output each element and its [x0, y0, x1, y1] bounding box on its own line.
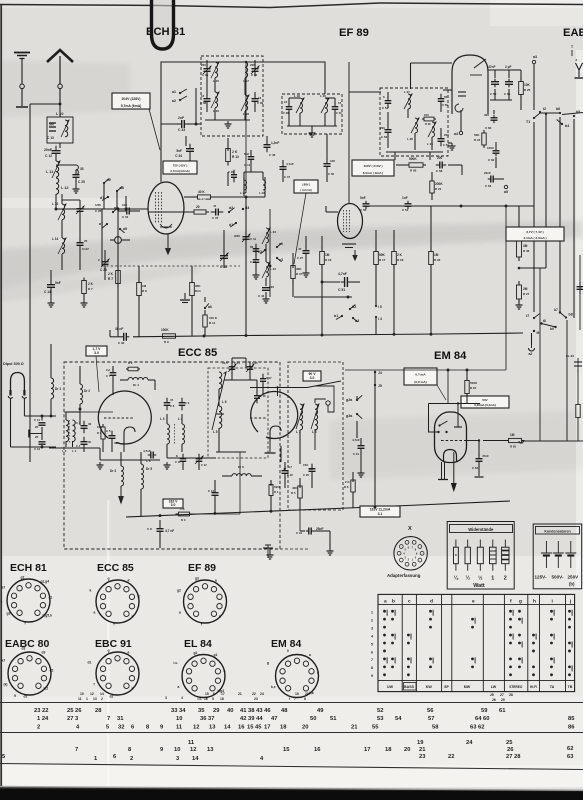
svg-text:R 25: R 25 [524, 88, 531, 92]
coil L19 [300, 98, 303, 113]
svg-text:C 43: C 43 [250, 260, 256, 264]
svg-text:i 4: i 4 [378, 317, 382, 321]
svg-text:7: 7 [294, 697, 296, 701]
svg-text:C 21: C 21 [353, 452, 359, 456]
svg-text:STEREO: STEREO [509, 685, 523, 689]
svg-text:C 12: C 12 [201, 463, 207, 467]
long bus 181V [126, 501, 510, 517]
svg-text:k,g5,h: k,g5,h [43, 614, 53, 618]
svg-text:4,7nF: 4,7nF [286, 162, 294, 166]
connection list rule 1 [0, 702, 583, 704]
V1b grid dashes [250, 417, 266, 419]
capacitor C54 1nF [407, 201, 409, 204]
svg-text:½: ½ [478, 575, 483, 582]
tube socket EF 89 [184, 580, 227, 623]
capacitors C8 C9 47 [166, 398, 168, 403]
V1a grid dashes [104, 417, 134, 419]
wire x375 drop [374, 398, 376, 507]
svg-text:C 52: C 52 [382, 106, 388, 110]
AGC dashed wire [102, 265, 240, 267]
svg-text:7: 7 [371, 658, 373, 662]
svg-text:50: 50 [310, 716, 316, 722]
svg-text:g2: g2 [21, 576, 25, 580]
svg-text:a: a [1, 600, 3, 604]
svg-text:21: 21 [419, 747, 426, 753]
svg-text:54: 54 [395, 716, 402, 722]
capacitor C47 4,7nF [282, 162, 284, 167]
svg-text:3.0: 3.0 [94, 351, 99, 355]
svg-text:200: 200 [437, 156, 443, 160]
svg-text:L 26: L 26 [407, 137, 413, 141]
svg-text:12: 12 [193, 725, 199, 731]
svg-text:31: 31 [117, 716, 124, 722]
svg-text:9: 9 [371, 674, 373, 678]
svg-text:29: 29 [213, 708, 220, 714]
capacitor C12 25 [41, 427, 43, 440]
resistor R7b 2K [83, 278, 85, 281]
terminal a3 [532, 60, 535, 63]
svg-text:59: 59 [481, 708, 488, 714]
svg-text:a2: a2 [529, 352, 533, 356]
svg-text:R 18: R 18 [397, 258, 404, 262]
svg-text:L 15: L 15 [213, 79, 219, 83]
svg-text:16,5: 16,5 [222, 361, 228, 365]
svg-text:C 17: C 17 [266, 376, 272, 380]
tuning arrow L5 L6 [212, 372, 226, 430]
svg-text:5: 5 [371, 642, 373, 646]
svg-text:EABC 80: EABC 80 [563, 27, 583, 39]
resistor R13 2K [227, 145, 229, 149]
capacitor C61 2uF [508, 70, 510, 78]
svg-text:a: a [309, 653, 311, 657]
wire T1 internals [206, 74, 208, 86]
capacitor C8b 4,7nF [159, 520, 161, 526]
svg-text:C 33: C 33 [178, 128, 185, 132]
svg-text:L 20: L 20 [320, 94, 326, 98]
coil L8 [315, 404, 318, 430]
svg-text:6: 6 [371, 650, 373, 654]
svg-text:k,a: k,a [309, 691, 314, 695]
wire EM84 grid line [345, 369, 506, 371]
svg-text:g1: g1 [214, 653, 218, 657]
trimmer C35 200 [206, 60, 208, 66]
svg-text:15: 15 [338, 101, 342, 105]
svg-text:L 23: L 23 [270, 230, 276, 234]
capacitor C38 10 [206, 86, 208, 96]
svg-text:C 57: C 57 [443, 143, 449, 147]
svg-text:1,2nF: 1,2nF [271, 141, 279, 145]
svg-text:L 13: L 13 [52, 202, 59, 206]
svg-text:C 46: C 46 [228, 170, 234, 174]
svg-text:C 36: C 36 [251, 73, 257, 77]
svg-text:100: 100 [424, 113, 429, 117]
svg-text:d9: d9 [107, 178, 111, 182]
svg-text:23: 23 [254, 697, 258, 701]
svg-text:k: k [225, 595, 227, 599]
contacts i4 i5 [375, 305, 377, 307]
capacitor C25 [56, 164, 76, 166]
svg-text:g: g [108, 649, 110, 653]
svg-text:24: 24 [466, 740, 473, 746]
svg-text:2 K: 2 K [88, 282, 94, 286]
svg-text:30 nF: 30 nF [115, 327, 123, 331]
svg-text:a: a [224, 669, 226, 673]
capacitor C37 47 [211, 211, 216, 213]
svg-text:86: 86 [568, 725, 575, 731]
svg-text:47: 47 [283, 467, 287, 471]
svg-text:C 31: C 31 [122, 215, 129, 219]
svg-text:L 27: L 27 [404, 90, 410, 94]
capacitor C27 47 [305, 246, 307, 251]
svg-text:Dr 1: Dr 1 [55, 387, 61, 391]
svg-text:R14: R14 [195, 289, 201, 293]
coil L25 [432, 122, 435, 137]
svg-text:TA: TA [550, 685, 555, 689]
capacitor C17 [262, 374, 264, 379]
svg-text:C 14: C 14 [234, 361, 240, 365]
svg-text:29: 29 [501, 698, 505, 702]
svg-text:32: 32 [118, 725, 124, 731]
svg-text:C 8: C 8 [147, 527, 152, 531]
svg-text:2 K: 2 K [232, 150, 238, 154]
svg-text:g3a: g3a [346, 414, 353, 418]
capacitor C58 200 [436, 164, 440, 166]
svg-text:50K: 50K [474, 133, 480, 137]
ECH81 tube U1 [148, 182, 184, 234]
resistor R8 1M [138, 280, 140, 283]
svg-text:25: 25 [490, 693, 494, 697]
svg-text:Kondensatoren: Kondensatoren [544, 529, 570, 533]
svg-text:L 8: L 8 [312, 430, 317, 434]
svg-text:5nF: 5nF [176, 149, 182, 153]
contacts b1 b2 b3 [349, 308, 351, 310]
svg-text:20: 20 [302, 725, 308, 731]
wire left drop [117, 209, 119, 337]
svg-text:23 22: 23 22 [34, 708, 49, 714]
diode electrode [474, 59, 486, 68]
svg-text:C 26: C 26 [95, 209, 102, 213]
svg-text:5nF: 5nF [360, 196, 366, 200]
ECC85 dashed box [64, 362, 280, 549]
IF transformer T2 dashed box [282, 94, 342, 134]
svg-text:b: b [392, 599, 395, 605]
svg-text:C 11: C 11 [34, 418, 40, 422]
svg-text:L 1: L 1 [72, 449, 77, 453]
svg-text:2M: 2M [523, 287, 528, 291]
terminals J4 J5 [374, 371, 376, 373]
svg-text:e3: e3 [279, 258, 283, 262]
svg-text:a9: a9 [123, 227, 127, 231]
coils L1 L2 [66, 420, 69, 442]
capacitor C18 4,7 [284, 466, 286, 471]
svg-text:2: 2 [371, 618, 373, 622]
svg-text:LW: LW [491, 685, 497, 689]
svg-text:100: 100 [122, 203, 127, 207]
svg-text:L 3: L 3 [160, 417, 165, 421]
svg-text:25: 25 [506, 740, 513, 746]
svg-text:C 41: C 41 [250, 237, 256, 241]
callout 90V [303, 371, 321, 381]
svg-text:61: 61 [499, 708, 506, 714]
svg-text:100K: 100K [161, 328, 169, 332]
capacitor C38b 10 [288, 102, 290, 107]
svg-text:R 4: R 4 [274, 490, 279, 494]
resistor R21 200K [431, 178, 433, 181]
svg-text:25: 25 [35, 425, 39, 429]
resistor R6 2K [352, 477, 354, 480]
svg-text:1000: 1000 [487, 146, 494, 150]
svg-text:k: k [219, 615, 221, 619]
capacitor C33 2nF [161, 123, 178, 125]
resistor R17 500K [375, 248, 377, 252]
svg-text:b8: b8 [569, 313, 573, 317]
inner dashed box [208, 368, 268, 458]
svg-text:16: 16 [204, 697, 208, 701]
svg-text:R 15: R 15 [296, 272, 303, 276]
svg-text:4,7nF: 4,7nF [338, 272, 347, 276]
svg-text:28: 28 [509, 693, 513, 697]
svg-text:3,1mA ( 3,3mA ): 3,1mA ( 3,3mA ) [524, 236, 547, 240]
svg-text:27 28: 27 28 [506, 754, 521, 760]
svg-text:R 13: R 13 [232, 155, 239, 159]
svg-text:X: X [408, 526, 412, 532]
wire grid feed [196, 123, 201, 125]
svg-text:2: 2 [37, 725, 40, 731]
svg-text:50K: 50K [379, 253, 386, 257]
svg-text:R 36: R 36 [523, 249, 530, 253]
svg-text:27 3: 27 3 [67, 716, 79, 722]
ground mid [184, 293, 186, 299]
svg-text:R 16: R 16 [325, 258, 332, 262]
svg-text:R 1: R 1 [97, 431, 102, 435]
svg-text:a7: a7 [2, 586, 6, 590]
svg-text:R 7: R 7 [108, 277, 113, 281]
stub wire [29, 433, 42, 435]
EM84 screen electrode [457, 404, 459, 428]
resistor R3 1K [176, 513, 179, 515]
svg-text:9: 9 [14, 694, 16, 698]
svg-text:C 5: C 5 [106, 429, 111, 433]
resistors 3M R36 2M R27 right [518, 237, 520, 241]
svg-text:d2: d2 [50, 669, 54, 673]
svg-text:L 10: L 10 [56, 112, 64, 116]
svg-text:40 K: 40 K [198, 190, 205, 194]
svg-text:(k): (k) [4, 683, 8, 687]
svg-text:( 88V ): ( 88V ) [302, 183, 310, 187]
capacitor C46b [233, 170, 235, 175]
svg-text:57: 57 [428, 716, 434, 722]
capacitor C12 bottom [214, 488, 216, 493]
svg-text:(0,8 mA): (0,8 mA) [414, 380, 426, 384]
capacitor C20 150 [311, 464, 313, 469]
svg-text:EM 84: EM 84 [434, 350, 467, 362]
svg-text:R 21: R 21 [435, 187, 442, 191]
wire EM84 anode line [483, 440, 508, 442]
svg-text:42 39 44: 42 39 44 [240, 716, 263, 722]
wire AGC to box [239, 452, 241, 514]
svg-text:500: 500 [49, 123, 54, 127]
resistor R15 30K [292, 262, 294, 266]
svg-text:Widerstände: Widerstände [468, 527, 494, 532]
svg-text:21: 21 [351, 725, 358, 731]
svg-text:L 12: L 12 [61, 186, 69, 190]
contacts b6 b5 b4 [559, 112, 561, 114]
svg-text:C 15: C 15 [252, 361, 258, 365]
resistor R19 100 [422, 118, 424, 120]
table contact dots [383, 610, 386, 613]
svg-text:b1: b1 [334, 314, 338, 318]
black bottom strip [0, 787, 583, 800]
resistor R20 1M [506, 440, 509, 442]
wire g2 node [269, 209, 271, 297]
svg-text:3: 3 [165, 696, 167, 700]
wire bus 297 [294, 296, 352, 298]
resistor R7 2K [117, 267, 119, 271]
svg-text:d1: d1 [24, 695, 28, 699]
svg-text:1M: 1M [142, 284, 147, 288]
adapter socket circle [394, 537, 427, 570]
svg-text:200K: 200K [435, 182, 443, 186]
capacitor C51 4,7nF [322, 281, 340, 283]
svg-text:C 3: C 3 [76, 421, 81, 425]
svg-text:C 60: C 60 [485, 126, 492, 130]
svg-text:16: 16 [314, 747, 321, 753]
svg-text:C 14: C 14 [44, 290, 51, 294]
V1a cathode hook [124, 427, 135, 446]
svg-text:C 9: C 9 [185, 401, 190, 405]
svg-text:L 19: L 19 [294, 94, 300, 98]
trimmer C41 3/30 [245, 232, 247, 237]
svg-text:R 12: R 12 [200, 197, 206, 201]
svg-text:20: 20 [305, 692, 309, 696]
svg-text:13: 13 [207, 747, 214, 753]
coil L15 [215, 62, 218, 78]
svg-text:16: 16 [238, 725, 245, 731]
svg-text:26: 26 [492, 698, 496, 702]
svg-text:63 62: 63 62 [470, 725, 485, 731]
svg-text:500K: 500K [470, 381, 478, 385]
capacitor C62 1000 [495, 148, 497, 151]
svg-text:EF 89: EF 89 [188, 562, 216, 574]
voltage callout 6,7V [506, 227, 564, 241]
capacitor C32 30nF [121, 336, 124, 338]
capacitor C11 25 [41, 416, 43, 421]
svg-text:4,7 nF: 4,7 nF [165, 529, 174, 533]
svg-text:SP: SP [444, 685, 449, 689]
capacitor C19 25nF [306, 530, 309, 532]
ground stubs FM [166, 462, 168, 465]
svg-text:10: 10 [80, 692, 84, 696]
cathode arrow EF89 [354, 250, 356, 258]
resistor R26 500K [406, 164, 409, 166]
svg-text:R 2: R 2 [128, 361, 133, 365]
callout 0,4mA [404, 368, 437, 385]
svg-text:C 61: C 61 [504, 92, 511, 96]
connection list rule 3 [0, 764, 583, 770]
resistor R23 1M [430, 248, 432, 252]
voltage callout 204V [112, 93, 150, 109]
svg-text:25: 25 [84, 239, 88, 243]
capacitor C31 100 [118, 210, 124, 212]
svg-text:R 17: R 17 [379, 258, 386, 262]
arrow antenna [47, 50, 73, 62]
svg-text:C 64: C 64 [485, 184, 492, 188]
svg-text:C 38: C 38 [200, 101, 206, 105]
svg-text:20nF: 20nF [44, 148, 52, 152]
svg-text:a: a [94, 611, 96, 615]
svg-text:6,7V ( 7,4V ): 6,7V ( 7,4V ) [526, 230, 543, 234]
terminal a2 bottom [529, 348, 535, 351]
svg-text:17: 17 [221, 692, 225, 696]
svg-text:18: 18 [385, 747, 392, 753]
svg-text:11: 11 [188, 740, 195, 746]
coil L18 [245, 95, 248, 111]
svg-text:a: a [179, 611, 181, 615]
wire R22 drop [466, 394, 468, 404]
coil L21 L22 top [244, 180, 247, 190]
svg-text:17: 17 [264, 725, 270, 731]
capacitor C63 47nF [478, 454, 480, 459]
dashed box L7 L8 [288, 362, 343, 510]
capacitor C12 20nF [55, 146, 57, 151]
svg-text:C 51: C 51 [338, 288, 345, 292]
resistor R4 5000 [270, 482, 272, 485]
svg-text:35: 35 [80, 167, 84, 171]
capacitor C16 [256, 391, 258, 396]
svg-text:C 58: C 58 [436, 169, 443, 173]
svg-text:b4: b4 [565, 124, 569, 128]
svg-text:10: 10 [284, 100, 288, 104]
svg-text:25nF: 25nF [316, 527, 323, 531]
svg-text:47nF: 47nF [488, 65, 495, 69]
EM84 tube U3 [435, 412, 467, 463]
svg-text:Adapterfassung: Adapterfassung [387, 573, 421, 578]
svg-text:2: 2 [130, 756, 133, 762]
svg-text:10: 10 [174, 747, 180, 753]
svg-text:R 6: R 6 [344, 485, 349, 489]
svg-text:R 23: R 23 [434, 258, 441, 262]
svg-text:204V (228V): 204V (228V) [121, 97, 140, 101]
svg-text:ECC 85: ECC 85 [178, 347, 217, 359]
wire b8 drop [566, 320, 568, 441]
svg-text:R 5: R 5 [291, 491, 296, 495]
svg-text:24: 24 [260, 692, 264, 696]
capacitor C50 47nF [494, 70, 496, 78]
wire screen feed [505, 206, 507, 370]
tube socket EBC 91 [96, 652, 139, 695]
capacitor C43 [255, 255, 257, 260]
diode bars [458, 91, 466, 93]
wire oscillator section [255, 246, 257, 256]
callout 181V [360, 506, 400, 517]
svg-text:C 39: C 39 [257, 101, 263, 105]
svg-text:200: 200 [201, 63, 206, 67]
svg-text:d1: d1 [229, 223, 233, 227]
svg-text:15: 15 [205, 692, 209, 696]
wire contact link [540, 112, 560, 114]
resistor R5 40K [299, 483, 301, 486]
svg-text:50: 50 [444, 95, 448, 99]
svg-text:125V-: 125V- [535, 575, 547, 580]
svg-text:e1: e1 [279, 242, 283, 246]
svg-text:22: 22 [252, 692, 256, 696]
svg-text:a': a' [128, 579, 131, 583]
svg-text:13: 13 [209, 725, 216, 731]
svg-text:L 16: L 16 [213, 109, 219, 113]
wire arch feed [443, 89, 452, 91]
svg-text:L 24: L 24 [270, 267, 276, 271]
resistor R14 36K [191, 280, 193, 283]
